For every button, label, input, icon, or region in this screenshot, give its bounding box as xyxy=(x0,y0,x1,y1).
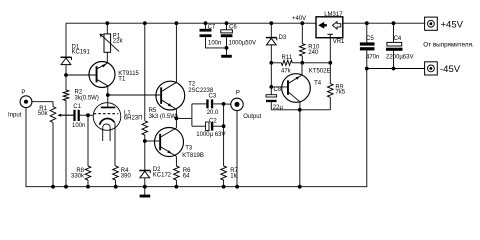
junction -45/C5 xyxy=(365,67,369,71)
wire LM317 adj down xyxy=(329,38,331,63)
input jack P xyxy=(20,96,32,108)
wire C4 bottom to -45 wire xyxy=(393,51,395,69)
label R2 3k(0.5W) xyxy=(75,89,99,101)
resistor R10 xyxy=(300,23,306,63)
zener diode D1 xyxy=(61,57,72,75)
output jack P xyxy=(231,98,243,110)
label T4 KT502E xyxy=(309,68,331,86)
trimmer potentiometer P1 xyxy=(100,34,119,52)
wire C7 bottom xyxy=(206,37,227,48)
svg-text:1000µ50V: 1000µ50V xyxy=(229,40,256,46)
wire rail to C6 xyxy=(226,23,228,30)
voltage regulator VR1 LM317 xyxy=(316,17,343,38)
svg-text:390: 390 xyxy=(121,174,132,180)
junction ADJ/R9 xyxy=(328,61,332,65)
wire T2 emitter to output node xyxy=(175,109,177,118)
wire R5 to T3 base node xyxy=(144,135,146,141)
junction rail/R2 xyxy=(64,185,68,189)
wire R4 to rail xyxy=(115,180,117,187)
svg-text:R11: R11 xyxy=(282,55,293,61)
svg-text:470n: 470n xyxy=(366,55,379,61)
label R5 3k3 (0.5W) xyxy=(149,108,178,120)
capacitor C2 (electrolytic) xyxy=(206,122,214,131)
capacitor C8 (electrolytic) xyxy=(266,87,277,110)
resistor R9 xyxy=(328,84,334,98)
label R10 240 xyxy=(308,45,320,56)
svg-text:7k5: 7k5 xyxy=(335,90,345,96)
label C3 20.0 xyxy=(207,94,219,116)
wire P1 top to rail xyxy=(106,23,108,34)
wire R1 wiper to C1 xyxy=(59,114,73,116)
svg-text:KT502E: KT502E xyxy=(309,68,331,74)
wire to T4 base xyxy=(271,86,287,88)
junction rail/C6 xyxy=(225,21,229,25)
transistor T3 xyxy=(155,128,184,157)
label T2 2SC2238 xyxy=(188,81,214,94)
label D2 KC172 xyxy=(153,167,172,179)
junction rail/T2 collector xyxy=(175,21,179,25)
svg-text:C5: C5 xyxy=(366,36,374,42)
wire R6 to rail xyxy=(175,180,177,187)
junction -45/C4 xyxy=(392,67,396,71)
node R11 left junction xyxy=(269,61,273,65)
tube cathode arc xyxy=(100,118,115,124)
junction C3/output xyxy=(222,102,226,106)
wire rail to C4 xyxy=(393,23,395,42)
resistor R6 xyxy=(174,166,180,180)
wire cathode to R4 xyxy=(114,123,116,166)
label R8 330k xyxy=(71,168,85,180)
transistor T4 xyxy=(282,74,311,103)
junction rail/D2/ground xyxy=(143,185,147,189)
svg-text:Output: Output xyxy=(243,114,261,120)
label C8 22u xyxy=(273,87,284,111)
junction rail/R6 xyxy=(175,185,179,189)
wire R1 bottom to rail xyxy=(52,123,54,187)
label C2 1000u 63V xyxy=(196,118,225,138)
label P1 22k xyxy=(113,33,124,44)
node tube anode junction xyxy=(106,93,110,97)
junction rail/R5 xyxy=(143,21,147,25)
wire rail to C5 xyxy=(366,23,368,42)
svg-text:2200µ63V: 2200µ63V xyxy=(386,55,413,61)
svg-text:LM317: LM317 xyxy=(324,12,343,18)
junction rail/R8 xyxy=(86,185,90,189)
resistor R4 xyxy=(113,166,119,180)
svg-text:1000µ 63V: 1000µ 63V xyxy=(196,132,225,138)
svg-text:6Н23П: 6Н23П xyxy=(124,115,143,121)
svg-text:+40V: +40V xyxy=(292,16,306,22)
wire to output jack xyxy=(224,103,231,105)
wire C6 bottom xyxy=(226,37,228,48)
wire cap branch vertical xyxy=(191,104,193,126)
svg-text:64: 64 xyxy=(183,174,190,180)
label R6 64 xyxy=(183,168,191,180)
wire D3 node down to T4 base node xyxy=(270,63,272,87)
label C1 100n xyxy=(72,104,85,129)
wire node to T3 base xyxy=(145,140,160,142)
junction C2/R7 xyxy=(222,124,226,128)
label T1 KT9115 xyxy=(118,71,139,82)
wire input tip to R1 xyxy=(32,102,53,107)
junction rail/R7 xyxy=(222,185,226,189)
svg-text:KC191: KC191 xyxy=(72,50,91,56)
junction rail/C5 xyxy=(365,21,369,25)
svg-text:D3: D3 xyxy=(279,35,287,41)
label D1 KC191 xyxy=(72,44,91,55)
wire T4 collector down to rail xyxy=(299,102,301,187)
capacitor C1 xyxy=(73,110,79,121)
svg-text:+45V: +45V xyxy=(441,19,464,30)
junction rail/C4 xyxy=(392,21,396,25)
wire T3 emitter to R6 xyxy=(175,156,177,166)
node T3 base junction xyxy=(143,139,147,143)
svg-text:T4: T4 xyxy=(314,81,322,87)
label L1 6H23P xyxy=(124,111,143,122)
wire top +45V rail (right of LM317) xyxy=(343,22,425,24)
wire output sleeve to rail xyxy=(236,111,238,187)
wire rail to D3 xyxy=(270,23,272,37)
capacitor C7 xyxy=(200,29,212,37)
svg-text:47k: 47k xyxy=(281,69,292,75)
svg-text:T3: T3 xyxy=(185,146,193,152)
node T4 emitter junction xyxy=(300,61,304,65)
capacitor C4 (electrolytic) xyxy=(386,42,403,50)
label C7 100n xyxy=(208,25,222,47)
wire anode node to plate xyxy=(107,95,109,107)
node output junction xyxy=(175,117,179,121)
transistor T1 xyxy=(89,62,115,88)
wire R9 bottom to collector node xyxy=(329,97,331,110)
wire C3 to output jack node xyxy=(213,103,223,105)
svg-text:P: P xyxy=(236,91,240,97)
wire bottom rail xyxy=(26,69,367,187)
vacuum tube L1 triode xyxy=(93,103,121,131)
svg-text:-45V: -45V xyxy=(440,64,461,75)
terminal -45V xyxy=(425,62,438,75)
wire C2 to R7 column xyxy=(213,125,223,127)
svg-text:C1: C1 xyxy=(73,104,81,110)
svg-text:P: P xyxy=(21,90,25,96)
label R1 50k xyxy=(38,106,49,117)
wire to C2 xyxy=(192,125,206,127)
resistor R11 xyxy=(271,60,302,65)
junction rail/output sleeve xyxy=(235,185,239,189)
junction rail/R10 xyxy=(300,21,304,25)
wire C1 to grid xyxy=(80,114,94,116)
resistor R2 xyxy=(63,75,69,187)
label R11 47k xyxy=(281,55,293,75)
label R4 390 xyxy=(121,168,132,180)
terminal +45V xyxy=(425,17,438,30)
svg-text:20.0: 20.0 xyxy=(207,110,219,116)
svg-text:22k: 22k xyxy=(113,39,124,45)
tube heater xyxy=(103,124,110,141)
wire T1 emitter to P1 xyxy=(106,52,108,63)
svg-text:VR1: VR1 xyxy=(333,39,345,45)
svg-text:C7: C7 xyxy=(208,25,216,31)
junction collector/feedback xyxy=(298,108,302,112)
wire T4 emitter up xyxy=(301,63,303,75)
svg-text:3k(0.5W): 3k(0.5W) xyxy=(75,96,99,102)
wire output node to caps xyxy=(176,117,192,119)
capacitor C5 xyxy=(360,42,375,50)
svg-text:C4: C4 xyxy=(394,36,402,42)
svg-text:T2: T2 xyxy=(188,81,196,87)
wire rail down to R5 xyxy=(144,23,146,121)
junction C7/C6 ground node xyxy=(225,46,229,50)
svg-text:От выпрямителя.: От выпрямителя. xyxy=(423,41,474,48)
wire rail to C7 xyxy=(205,23,207,29)
transistor T2 xyxy=(156,81,185,110)
svg-text:KC172: KC172 xyxy=(153,173,172,179)
junction rail/R1 xyxy=(51,185,55,189)
junction rail/R4 xyxy=(114,185,118,189)
label R7 1k xyxy=(230,168,238,180)
wire T2 collector to rail xyxy=(175,23,177,82)
wire C5 bottom to -45 node xyxy=(366,50,368,68)
wire to C3 xyxy=(192,103,206,105)
label C4 2200u63V xyxy=(386,36,413,60)
svg-text:330k: 330k xyxy=(71,174,85,180)
potentiometer R1 xyxy=(50,107,73,123)
node T4 base junction xyxy=(269,85,273,89)
svg-text:100n: 100n xyxy=(72,123,85,129)
wire base node to T1 xyxy=(66,74,96,76)
wire -45V line xyxy=(367,68,425,70)
capacitor C3 xyxy=(206,99,213,108)
svg-text:50k: 50k xyxy=(38,111,49,117)
label T3 KT819B xyxy=(182,146,204,160)
ground symbol xyxy=(140,187,151,198)
wire C8 to collector to R9 bottom xyxy=(271,109,330,111)
junction rail/P1 xyxy=(105,21,109,25)
label R9 7k5 xyxy=(335,85,345,96)
junction rail/C7 xyxy=(204,21,208,25)
label C6 1000u50V xyxy=(229,25,256,47)
wire ADJ to R9 xyxy=(302,63,330,84)
svg-text:KT819B: KT819B xyxy=(182,153,204,159)
capacitor C6 (electrolytic) xyxy=(221,30,233,37)
wire anode to T2 base xyxy=(108,94,161,96)
svg-text:100n: 100n xyxy=(208,40,221,46)
resistor R8 xyxy=(85,115,91,187)
svg-text:C8: C8 xyxy=(274,87,282,93)
svg-text:C6: C6 xyxy=(229,25,237,31)
junction rail/T4 collector xyxy=(298,185,302,189)
ground symbol (C7/C6) xyxy=(221,48,232,58)
wire R7 to rail xyxy=(223,180,225,187)
wire output column xyxy=(223,104,225,166)
wire top +40V rail (left of LM317) xyxy=(66,22,316,24)
svg-text:1k: 1k xyxy=(230,174,237,180)
zener diode D2 xyxy=(139,141,150,187)
svg-text:Input: Input xyxy=(8,113,22,119)
zener diode D3 xyxy=(266,38,277,63)
svg-text:T1: T1 xyxy=(118,77,126,83)
svg-text:240: 240 xyxy=(308,50,319,56)
wire rail corner down to D1 xyxy=(65,23,67,57)
label C5 470n xyxy=(366,36,379,60)
wire T1 collector down xyxy=(107,86,109,95)
svg-text:C2: C2 xyxy=(209,118,217,124)
wire T3 collector to output node xyxy=(175,118,177,128)
node T1 base junction xyxy=(64,73,68,77)
svg-text:C3: C3 xyxy=(209,94,217,100)
resistor R5 xyxy=(142,121,148,135)
junction rail/D3 xyxy=(269,21,273,25)
resistor R7 xyxy=(221,166,227,180)
svg-text:R2: R2 xyxy=(75,89,83,95)
node grid junction xyxy=(86,113,90,117)
svg-text:3k3 (0.5W): 3k3 (0.5W) xyxy=(149,114,178,120)
